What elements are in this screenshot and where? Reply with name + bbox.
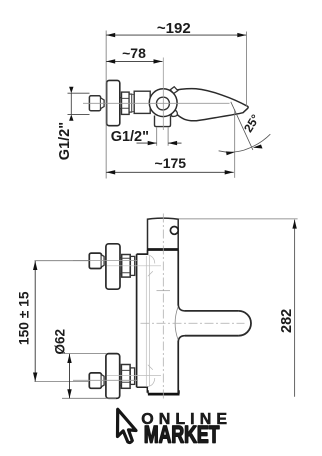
logo cursor arrow — [118, 409, 137, 442]
dimension 150+-15: extension bottom — [35, 381, 90, 383]
indicator button on handle — [170, 227, 178, 235]
svg-text:Ø62: Ø62 — [52, 329, 67, 355]
spout top edge (front view) — [185, 310, 239, 312]
body right edge lower — [177, 341, 179, 394]
spout rounded end — [239, 311, 251, 336]
dimension G1/2 inlet: line — [70, 93, 72, 114]
dimension 282: top arrow — [292, 220, 296, 229]
body left edge — [136, 254, 138, 387]
body bottom step — [137, 387, 148, 393]
svg-text:G1/2": G1/2" — [111, 129, 149, 145]
dimension G1/2 outlet: left arrow — [148, 141, 157, 145]
dimension 150+-15: extension top — [35, 260, 90, 262]
dimension ~192 left arrow — [106, 33, 115, 37]
dimension ~192 line — [106, 34, 246, 36]
hex facet lines (side view) — [122, 98, 130, 108]
dimension G1/2 inlet: tick bottom — [68, 113, 90, 115]
dimension G1/2 outlet: right arrow — [168, 141, 177, 145]
dimension 150+-15: top arrow — [33, 261, 37, 270]
upper inlet nut (front view) — [89, 253, 101, 268]
spout fillet top — [178, 305, 185, 311]
lower inlet nut (front view) — [89, 373, 101, 388]
cartridge inner circle (side view) — [156, 97, 169, 110]
svg-text:G1/2": G1/2" — [57, 122, 73, 160]
centerline upper inlet — [73, 260, 137, 262]
svg-text:150 ± 15: 150 ± 15 — [16, 291, 31, 345]
dimension 150+-15: line — [34, 261, 36, 382]
centerline upper boss — [107, 265, 161, 267]
dimension dia62: top arrow — [67, 354, 71, 363]
valve body circle (side view) — [149, 89, 177, 117]
lower inlet cone — [102, 375, 105, 387]
body bottom thick cap — [148, 393, 180, 396]
washer ring (side view) — [129, 94, 132, 112]
valve body cylinder (side view) — [134, 91, 150, 113]
dimension dia62: extension bottom — [62, 397, 116, 399]
spout (side view) — [170, 89, 248, 121]
dimension G1/2 inlet: top arrow — [69, 87, 73, 93]
spout bottom edge (front view) — [185, 335, 239, 337]
upper neck — [120, 258, 122, 274]
upper hex (front view) — [122, 255, 131, 278]
dimension 282: extension top — [179, 218, 298, 220]
extension line: spout outlet vertical (for ~175 / 25deg) — [234, 110, 236, 178]
centerline vertical (front view) — [162, 214, 164, 400]
dimension ~78 right arrow — [154, 59, 163, 63]
25deg arrow at slanted line — [253, 145, 263, 149]
neck between escutcheon and hex (side view) — [120, 98, 122, 109]
body step under cap — [137, 250, 148, 254]
spout fillet bottom — [178, 336, 185, 342]
upper escutcheon (front view) — [106, 244, 120, 289]
handle cap (front view) — [148, 218, 179, 250]
upper inlet cone — [102, 255, 105, 267]
dimension ~78 line — [106, 60, 162, 62]
body bottom cap end stubs — [148, 390, 179, 394]
wire: inlet cone (side view) — [101, 98, 104, 108]
dimension 150+-15: bottom arrow — [33, 373, 37, 382]
svg-text:~175: ~175 — [155, 155, 187, 171]
dimension G1/2 outlet: right leader — [168, 142, 181, 144]
dimension ~175 left arrow — [106, 170, 115, 174]
dimension G1/2 outlet: extension lines — [157, 127, 168, 145]
dimension dia62: extension top — [62, 353, 107, 355]
svg-text:~192: ~192 — [157, 20, 191, 37]
centerline spout (front view) — [141, 322, 245, 324]
wire: inlet nut G1/2 (side view) — [89, 96, 100, 111]
lower neck — [120, 376, 122, 385]
25deg dimension arc — [219, 134, 271, 152]
outlet port below valve (side view) — [155, 116, 171, 127]
lower escutcheon (front view) — [106, 354, 120, 399]
lower hex facets — [121, 370, 130, 382]
dimension 282: line — [294, 220, 296, 397]
spout-body intersection curve — [175, 307, 178, 340]
body internal vertical lines — [146, 256, 149, 386]
wall escutcheon (side view) — [107, 80, 120, 125]
centerline vertical through valve (side view) — [162, 58, 164, 131]
dimension ~78 left arrow — [106, 59, 115, 63]
svg-text:282: 282 — [279, 309, 295, 333]
hex adapter (side view) — [122, 92, 130, 114]
lower connection boss fillets — [148, 378, 155, 387]
lug on valve bottom-right (side view) — [171, 110, 178, 116]
centerline horizontal (side view) — [83, 102, 230, 104]
extension line: spout tip (for ~192) — [245, 32, 247, 107]
dimension G1/2 inlet: tick top — [68, 92, 90, 94]
handle cap thick bottom edge — [147, 248, 178, 251]
centerline cross tick (front view) — [157, 290, 171, 292]
upper hex facets — [122, 258, 131, 273]
dimension G1/2 inlet: bottom arrow — [69, 114, 73, 120]
extension line: wall plane — [105, 31, 107, 179]
upper connection boss fillets — [148, 255, 155, 264]
svg-text:~78: ~78 — [122, 45, 146, 61]
centerline lower boss — [107, 375, 161, 377]
dimension dia62: line — [69, 354, 71, 399]
upper washer — [130, 256, 134, 275]
centerline lower inlet — [73, 379, 137, 381]
handle tab on valve top-right (side view) — [170, 87, 178, 94]
dimension ~175 right arrow — [225, 170, 234, 174]
25deg slanted reference line — [231, 102, 253, 150]
dimension ~192 right arrow — [237, 33, 246, 37]
lower washer — [130, 368, 134, 385]
dimension ~175 line — [106, 171, 234, 173]
body right edge upper — [177, 250, 179, 305]
25deg arrow at vertical line — [226, 151, 235, 155]
svg-text:MARKET: MARKET — [144, 422, 220, 449]
lower hex (front view) — [121, 365, 130, 389]
dimension dia62: bottom arrow — [67, 389, 71, 398]
dimension G1/2 outlet: left leader — [137, 142, 157, 144]
